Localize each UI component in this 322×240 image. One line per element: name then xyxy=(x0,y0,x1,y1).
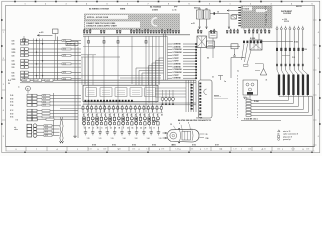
svg-text:S 69: S 69 xyxy=(10,113,13,115)
svg-text:0.5 BR: 0.5 BR xyxy=(152,121,158,123)
svg-text:56: 56 xyxy=(144,115,146,117)
svg-text:1.10: 1.10 xyxy=(159,138,162,140)
svg-text:28: 28 xyxy=(114,128,116,130)
svg-text:29: 29 xyxy=(145,128,147,130)
svg-text:22: 22 xyxy=(140,128,142,130)
svg-text:0.75: 0.75 xyxy=(43,101,46,103)
svg-text:1: 1 xyxy=(229,3,230,5)
svg-text:18: 18 xyxy=(118,128,120,130)
svg-text:14: 14 xyxy=(265,13,267,16)
svg-text:1.78: 1.78 xyxy=(161,149,164,151)
svg-text:0: 0 xyxy=(15,149,16,151)
svg-text:23: 23 xyxy=(127,128,129,130)
svg-text:S 615: S 615 xyxy=(294,42,298,44)
svg-text:5: 5 xyxy=(106,3,107,5)
svg-text:4: 4 xyxy=(3,109,4,112)
svg-text:m.31: m.31 xyxy=(191,23,195,25)
svg-text:31: 31 xyxy=(206,134,208,136)
svg-text:5: 5 xyxy=(311,3,312,5)
svg-text:1.16: 1.16 xyxy=(132,149,135,151)
svg-text:6: 6 xyxy=(318,84,319,86)
svg-text:valve: valve xyxy=(14,129,18,131)
svg-text:8: 8 xyxy=(302,149,303,151)
svg-text:8: 8 xyxy=(154,128,155,130)
svg-text:0: 0 xyxy=(318,136,319,138)
svg-text:2: 2 xyxy=(138,149,139,151)
svg-text:0.5 BR/GE: 0.5 BR/GE xyxy=(173,78,182,80)
svg-text:S 703: S 703 xyxy=(192,144,196,146)
svg-text:1.15: 1.15 xyxy=(87,138,90,140)
svg-text:1.63: 1.63 xyxy=(291,149,294,151)
svg-text:5: 5 xyxy=(3,136,4,138)
svg-text:2: 2 xyxy=(3,58,4,60)
svg-text:1: 1 xyxy=(77,149,78,151)
svg-text:K 6318: K 6318 xyxy=(244,8,250,10)
svg-text:26: 26 xyxy=(135,115,137,117)
svg-text:3: 3 xyxy=(65,3,66,5)
svg-text:9: 9 xyxy=(179,123,180,125)
svg-text:plug conn X: plug conn X xyxy=(283,136,293,138)
svg-text:32: 32 xyxy=(96,115,98,117)
svg-text:5: 5 xyxy=(318,58,319,60)
svg-text:0.75: 0.75 xyxy=(45,132,48,134)
svg-text:NOTE 30 -- B.PLUS 15 IGN: NOTE 30 -- B.PLUS 15 IGN xyxy=(87,17,109,19)
svg-text:1.18: 1.18 xyxy=(306,149,309,151)
svg-text:19: 19 xyxy=(113,115,115,117)
svg-text:3: 3 xyxy=(270,3,271,5)
svg-text:0.75 BK/GE: 0.75 BK/GE xyxy=(173,52,183,54)
svg-text:1.50: 1.50 xyxy=(171,144,174,146)
svg-text:X20: X20 xyxy=(12,41,15,43)
svg-text:1.50: 1.50 xyxy=(304,49,307,51)
svg-text:1.60: 1.60 xyxy=(117,149,120,151)
svg-text:1.29: 1.29 xyxy=(103,149,106,151)
svg-text:0.75 RT: 0.75 RT xyxy=(173,75,180,77)
svg-text:X 20: X 20 xyxy=(292,57,295,59)
svg-text:X20: X20 xyxy=(12,44,15,46)
svg-text:S 705: S 705 xyxy=(152,144,156,146)
svg-text:5: 5 xyxy=(265,25,266,27)
svg-text:0.75 RT: 0.75 RT xyxy=(173,55,180,57)
svg-text:1.74: 1.74 xyxy=(219,148,222,151)
svg-text:1a: 1a xyxy=(237,71,239,73)
svg-text:0.75: 0.75 xyxy=(63,55,66,57)
svg-text:S 705: S 705 xyxy=(132,144,136,146)
svg-text:m. 15: m. 15 xyxy=(172,10,176,12)
svg-text:S 213: S 213 xyxy=(244,98,248,100)
svg-text:8: 8 xyxy=(168,3,169,5)
svg-text:15: 15 xyxy=(217,12,219,14)
svg-text:0.75: 0.75 xyxy=(63,49,66,51)
svg-text:CONSULT W. CODE A SUPPLY CHART: CONSULT W. CODE A SUPPLY CHART xyxy=(86,25,118,28)
svg-text:1.17: 1.17 xyxy=(204,149,207,151)
svg-text:gray: gray xyxy=(174,6,177,8)
svg-text:1.21: 1.21 xyxy=(99,138,102,140)
svg-text:9: 9 xyxy=(188,3,189,5)
svg-text:3: 3 xyxy=(3,84,4,86)
svg-text:X 6034 BK 1.52 m: X 6034 BK 1.52 m xyxy=(244,118,258,121)
svg-text:7: 7 xyxy=(241,149,242,151)
svg-text:0: 0 xyxy=(209,3,210,5)
svg-text:1: 1 xyxy=(3,32,4,34)
svg-text:0.75: 0.75 xyxy=(43,98,46,100)
svg-text:1.50 BR: 1.50 BR xyxy=(196,117,203,119)
svg-text:0.75: 0.75 xyxy=(63,72,66,74)
svg-text:7: 7 xyxy=(147,3,148,5)
svg-text:13: 13 xyxy=(84,128,86,130)
svg-text:2: 2 xyxy=(250,3,251,5)
svg-text:18: 18 xyxy=(88,128,90,130)
svg-text:0.75 BK/GE: 0.75 BK/GE xyxy=(173,72,183,74)
svg-text:WIRE: WIRE xyxy=(120,9,126,11)
svg-text:X 634: X 634 xyxy=(254,100,258,103)
svg-text:1.21: 1.21 xyxy=(262,149,265,151)
svg-text:X 59: X 59 xyxy=(10,98,13,100)
svg-text:0.75: 0.75 xyxy=(45,129,48,131)
svg-text:X20: X20 xyxy=(12,67,15,69)
svg-text:m 0.5: m 0.5 xyxy=(39,32,43,34)
svg-text:X20: X20 xyxy=(12,55,15,57)
svg-text:1.19: 1.19 xyxy=(111,138,114,140)
svg-text:S 708: S 708 xyxy=(92,144,96,146)
svg-text:0.75 RT: 0.75 RT xyxy=(173,58,180,60)
svg-text:26: 26 xyxy=(130,115,132,117)
svg-text:S 12: S 12 xyxy=(10,110,13,112)
svg-text:BK/WT 12: BK/WT 12 xyxy=(67,43,75,45)
svg-text:84 WIRING SYSTEM: 84 WIRING SYSTEM xyxy=(89,8,109,11)
svg-text:X20: X20 xyxy=(12,76,15,78)
svg-text:S301: S301 xyxy=(12,64,16,66)
svg-text:2.5 RT: 2.5 RT xyxy=(46,80,51,82)
svg-text:1.51: 1.51 xyxy=(88,149,91,151)
svg-text:13: 13 xyxy=(149,128,151,130)
svg-text:5: 5 xyxy=(188,123,189,125)
svg-text:0.75: 0.75 xyxy=(63,63,66,65)
svg-text:6: 6 xyxy=(179,149,180,151)
svg-text:X16: X16 xyxy=(206,138,209,140)
svg-text:29: 29 xyxy=(161,115,163,117)
svg-text:4: 4 xyxy=(318,31,319,34)
svg-text:0.75 BK/GE: 0.75 BK/GE xyxy=(173,49,183,51)
svg-text:1.65: 1.65 xyxy=(277,149,280,151)
svg-text:29: 29 xyxy=(97,128,99,130)
svg-text:7: 7 xyxy=(36,149,37,151)
svg-text:0.5 BR/GE: 0.5 BR/GE xyxy=(173,63,182,65)
svg-text:8: 8 xyxy=(97,149,98,151)
svg-text:0.75 BK/GE: 0.75 BK/GE xyxy=(173,69,183,71)
svg-text:12: 12 xyxy=(170,124,172,126)
svg-text:4: 4 xyxy=(265,8,266,11)
svg-text:50: 50 xyxy=(109,115,111,117)
svg-text:CLUSTER: CLUSTER xyxy=(283,13,292,15)
svg-text:30: 30 xyxy=(8,83,10,85)
svg-text:32: 32 xyxy=(148,115,150,117)
svg-text:2.5 RT: 2.5 RT xyxy=(23,80,28,82)
svg-text:6: 6 xyxy=(127,3,128,5)
svg-text:0.5 BR/GE: 0.5 BR/GE xyxy=(173,66,182,68)
svg-text:1: 1 xyxy=(24,3,25,5)
svg-text:1a: 1a xyxy=(224,81,226,83)
svg-text:1: 1 xyxy=(282,149,283,151)
svg-text:1.56: 1.56 xyxy=(190,149,193,151)
svg-text:1.37: 1.37 xyxy=(233,149,236,151)
svg-text:X 5: X 5 xyxy=(16,119,19,121)
svg-text:16: 16 xyxy=(126,115,128,117)
svg-text:1.14: 1.14 xyxy=(248,148,251,151)
svg-text:K36: K36 xyxy=(12,72,15,74)
svg-text:X5: X5 xyxy=(207,58,209,60)
svg-text:31: 31 xyxy=(212,77,214,79)
svg-text:0.75: 0.75 xyxy=(63,40,66,42)
svg-text:0.75: 0.75 xyxy=(45,135,48,137)
svg-text:3: 3 xyxy=(200,149,201,151)
svg-text:0.75: 0.75 xyxy=(43,105,46,107)
svg-text:0.5 BR/GE: 0.5 BR/GE xyxy=(173,44,182,46)
svg-text:X6000 ---: X6000 --- xyxy=(214,96,221,98)
svg-text:X20: X20 xyxy=(12,61,15,63)
svg-text:S 707: S 707 xyxy=(215,144,219,146)
svg-text:0.5 BR/GE: 0.5 BR/GE xyxy=(173,46,182,48)
svg-text:0.75: 0.75 xyxy=(43,95,46,97)
svg-text:S 703: S 703 xyxy=(112,144,116,146)
svg-text:1.52: 1.52 xyxy=(135,138,138,140)
svg-text:2.5 RT: 2.5 RT xyxy=(34,80,39,82)
svg-text:7: 7 xyxy=(318,110,319,112)
svg-text:X 95: X 95 xyxy=(10,102,13,104)
svg-text:59: 59 xyxy=(139,115,141,117)
svg-text:X255: X255 xyxy=(12,49,16,51)
svg-text:m 1.50: m 1.50 xyxy=(282,19,287,21)
svg-text:S 55: S 55 xyxy=(10,117,13,119)
svg-text:0.75 RT: 0.75 RT xyxy=(173,61,180,63)
svg-text:K 6300: K 6300 xyxy=(250,38,255,40)
svg-text:0.75: 0.75 xyxy=(45,125,48,127)
svg-text:2/1989: 2/1989 xyxy=(152,9,158,11)
svg-text:1.22: 1.22 xyxy=(175,149,178,151)
svg-text:2: 2 xyxy=(45,3,46,5)
svg-text:84: M20/B25: 84: M20/B25 xyxy=(150,6,161,9)
svg-text:1.19: 1.19 xyxy=(146,149,149,151)
svg-text:52 310: 52 310 xyxy=(284,21,289,23)
svg-text:27: 27 xyxy=(105,128,107,130)
svg-text:X255: X255 xyxy=(12,52,16,54)
svg-text:X500: X500 xyxy=(12,79,16,81)
svg-text:31: 31 xyxy=(266,80,268,82)
svg-text:X 4: X 4 xyxy=(8,79,11,82)
